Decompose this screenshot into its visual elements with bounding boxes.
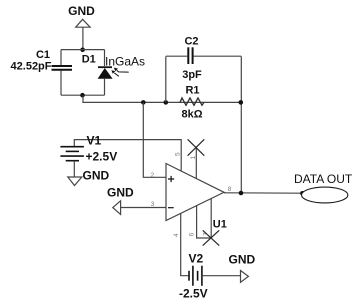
node E <box>239 100 244 105</box>
pin 6 stub <box>197 206 212 238</box>
svg-text:R1: R1 <box>185 85 199 97</box>
svg-text:5: 5 <box>175 152 182 156</box>
no-connect X pins 6,7 <box>203 230 220 245</box>
wire <box>73 161 75 177</box>
no-connect X pin 1 <box>188 139 205 155</box>
svg-text:V2: V2 <box>189 251 204 265</box>
svg-text:GND: GND <box>83 169 110 183</box>
wire <box>60 71 62 96</box>
svg-text:GND: GND <box>68 4 95 18</box>
svg-text:C2: C2 <box>184 36 198 48</box>
battery V2 <box>179 251 208 300</box>
wire <box>165 56 167 102</box>
wire <box>82 27 84 49</box>
svg-text:2: 2 <box>151 172 155 179</box>
wire <box>61 94 105 96</box>
node B <box>80 93 85 98</box>
wire <box>121 207 166 209</box>
wire <box>104 79 106 96</box>
svg-text:1: 1 <box>190 156 197 160</box>
photodiode D1 <box>82 53 145 78</box>
node G <box>300 191 305 196</box>
svg-text:3pF: 3pF <box>182 69 202 81</box>
capacitor C1 <box>11 49 72 73</box>
wire <box>104 50 106 66</box>
op-amp U1 <box>166 164 227 231</box>
ground <box>68 4 95 27</box>
svg-text:8: 8 <box>228 186 232 193</box>
wire <box>61 49 105 51</box>
battery V1 <box>60 133 117 163</box>
svg-text:DATA OUT: DATA OUT <box>294 172 353 186</box>
svg-text:D1: D1 <box>82 53 96 65</box>
node A <box>80 48 85 53</box>
svg-text:6: 6 <box>189 233 196 237</box>
svg-text:GND: GND <box>107 186 134 200</box>
svg-text:42.52pF: 42.52pF <box>11 61 52 73</box>
svg-text:C1: C1 <box>36 49 50 61</box>
node F <box>239 191 244 196</box>
pin 1 stub <box>195 147 197 179</box>
node D <box>164 100 169 105</box>
svg-text:U1: U1 <box>213 219 227 231</box>
capacitor C2 <box>166 36 242 82</box>
wire <box>143 102 166 177</box>
wire <box>240 56 242 193</box>
pin 7 stub <box>210 199 212 239</box>
ground <box>68 169 110 186</box>
DATA OUT port <box>294 172 353 203</box>
wire <box>83 95 241 102</box>
ground <box>107 186 134 215</box>
pin 4 wire <box>181 213 189 275</box>
svg-text:8kΩ: 8kΩ <box>181 109 202 121</box>
pin 5 wire <box>74 140 181 171</box>
svg-text:3: 3 <box>151 201 155 208</box>
svg-text:V1: V1 <box>87 133 102 147</box>
wire <box>202 275 241 277</box>
svg-text:-2.5V: -2.5V <box>179 286 208 300</box>
wire <box>60 50 62 66</box>
svg-text:7: 7 <box>202 232 209 236</box>
svg-text:GND: GND <box>229 253 256 267</box>
pin 8 output wire <box>224 192 302 194</box>
svg-text:4: 4 <box>173 233 180 237</box>
resistor R1 <box>180 85 204 121</box>
node C <box>141 100 146 105</box>
svg-text:+2.5V: +2.5V <box>86 150 118 164</box>
ground <box>229 253 256 283</box>
